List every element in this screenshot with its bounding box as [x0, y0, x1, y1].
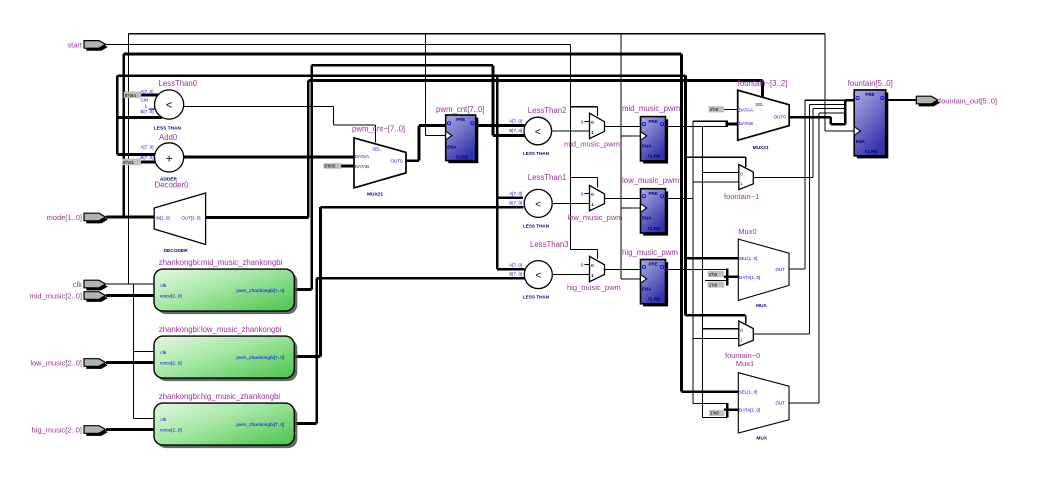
wire pwm_cnt bus left riser — [116, 76, 119, 155]
svg-text:pwm_zhankongbi[7..0]: pwm_zhankongbi[7..0] — [236, 288, 284, 294]
mux mid select — [581, 113, 605, 138]
wire start select row2 — [570, 176, 597, 178]
svg-text:clk: clk — [73, 280, 82, 289]
wire pwm_cnt to LessThan1 A — [497, 196, 523, 199]
svg-text:pwm_cnt~[7..0]: pwm_cnt~[7..0] — [352, 125, 405, 134]
svg-text:B[7..0]: B[7..0] — [509, 272, 522, 277]
register low_music_pwm — [622, 176, 679, 236]
comparator LessThan2 — [509, 106, 566, 156]
wire CIN stub — [149, 108, 157, 110]
wire Mux1 sel input — [682, 390, 739, 393]
svg-text:0: 0 — [581, 192, 584, 198]
svg-text:OUT0: OUT0 — [774, 114, 786, 119]
svg-text:SEL: SEL — [372, 147, 381, 152]
svg-text:8'h64: 8'h64 — [125, 93, 137, 98]
svg-text:1'h0: 1'h0 — [709, 272, 718, 277]
wire clk drop to fountain register clock — [824, 34, 826, 131]
svg-text:LESS THAN: LESS THAN — [523, 295, 550, 300]
svg-text:<: < — [535, 127, 541, 138]
wire hig mux out to D — [605, 268, 641, 270]
module zhankongbi:mid_music_zhankongbi — [154, 258, 297, 314]
svg-text:DATAA: DATAA — [739, 108, 753, 113]
svg-text:PRE: PRE — [865, 92, 874, 97]
svg-text:1: 1 — [591, 273, 594, 279]
svg-text:B[7..0]: B[7..0] — [509, 201, 522, 206]
svg-text:hig_music_pwm: hig_music_pwm — [622, 248, 678, 257]
wire hig_music pin bus — [106, 428, 154, 431]
svg-text:A[7..0]: A[7..0] — [141, 89, 154, 94]
svg-text:low_music_pwm: low_music_pwm — [568, 213, 623, 222]
svg-text:LessThan3: LessThan3 — [530, 240, 569, 249]
wire low mux out to D — [605, 197, 641, 199]
svg-text:LESS THAN: LESS THAN — [523, 151, 550, 156]
svg-text:ENA: ENA — [447, 144, 457, 149]
svg-text:ENA: ENA — [642, 286, 652, 291]
svg-text:DATAA: DATAA — [355, 154, 369, 159]
wire pwm_cnt to LessThan3 A — [497, 268, 524, 271]
svg-text:CLRN: CLRN — [456, 154, 468, 159]
wire fountain D joiner — [844, 100, 847, 124]
svg-text:0: 0 — [581, 263, 584, 269]
svg-text:1: 1 — [591, 202, 594, 208]
svg-text:DATAB: DATAB — [355, 164, 369, 169]
svg-text:zhankongbi:mid_music_zhankongb: zhankongbi:mid_music_zhankongbi — [159, 258, 283, 267]
module zhankongbi:low_music_zhankongbi — [154, 325, 297, 381]
wire const 8h01 to Add0 B — [141, 161, 157, 164]
wire MUX21 out to pwm_cnt D — [406, 159, 419, 162]
wire LessThan2 out — [552, 130, 590, 132]
decoder Decoder0 — [154, 180, 205, 254]
svg-text:start: start — [67, 40, 83, 49]
constant 1h0 mux0 b — [708, 282, 725, 288]
adder Add0 — [141, 133, 184, 183]
svg-text:MUX21: MUX21 — [367, 191, 383, 197]
wire start net — [106, 43, 570, 45]
svg-text:zhankongbi:hig_music_zhankongb: zhankongbi:hig_music_zhankongbi — [159, 392, 281, 401]
svg-text:OUT0: OUT0 — [390, 158, 402, 163]
svg-text:SEL[1..0]: SEL[1..0] — [739, 256, 758, 261]
mux pwm_cnt~[7..0] MUX21 — [352, 125, 406, 198]
svg-text:voice[2..0]: voice[2..0] — [160, 294, 182, 300]
svg-text:mid_music[2..0]: mid_music[2..0] — [29, 292, 82, 301]
mux fountain~1 — [724, 165, 759, 202]
wire drop to fountain mux21 DATAB — [684, 76, 687, 316]
wire fountain~1 out — [753, 177, 813, 179]
svg-text:1: 1 — [740, 338, 743, 343]
comparator LessThan1 — [509, 173, 566, 229]
svg-text:B[7..0]: B[7..0] — [141, 109, 154, 114]
wire fountain~0 out — [753, 333, 809, 335]
register pwm_cnt[7..0] — [436, 105, 485, 163]
svg-text:0: 0 — [591, 263, 594, 269]
constant 8h00 — [323, 163, 341, 169]
svg-text:MUX: MUX — [756, 303, 767, 309]
wire pwm_cnt bus right vertical — [496, 76, 499, 270]
wire joiner steps — [805, 99, 846, 101]
constant 2h0 — [709, 106, 725, 112]
svg-text:0: 0 — [581, 119, 584, 125]
input pin mid_music[2..0] — [29, 292, 107, 302]
svg-text:clk: clk — [160, 283, 166, 289]
svg-text:fountain_out[5..0]: fountain_out[5..0] — [939, 97, 997, 106]
svg-text:low_music_pwm: low_music_pwm — [622, 176, 679, 185]
wire low_music_pwm Q — [666, 197, 694, 199]
wire clk from pin to zhankongbi mid clk — [106, 283, 154, 285]
svg-text:<: < — [535, 199, 541, 210]
svg-text:<: < — [166, 100, 172, 112]
constant 1h0 mux0 a — [708, 271, 725, 277]
wire const 8h64 to LessThan0 A — [141, 94, 159, 97]
svg-text:0: 0 — [740, 328, 743, 333]
wire mode bus drop right — [680, 54, 683, 392]
svg-text:1: 1 — [740, 181, 743, 186]
svg-text:0: 0 — [740, 171, 743, 176]
wire const0 stubs — [585, 120, 590, 122]
svg-text:clk: clk — [160, 350, 166, 356]
svg-text:1'h0: 1'h0 — [709, 282, 718, 287]
wire mode bus to decoder — [106, 216, 154, 219]
wire Mux0 sel input — [686, 257, 739, 260]
comparator LessThan3 — [509, 240, 568, 300]
svg-text:DATA[1..0]: DATA[1..0] — [739, 275, 760, 280]
svg-text:pwm_zhankongbi[7..0]: pwm_zhankongbi[7..0] — [236, 422, 284, 428]
svg-text:IN[1..0]: IN[1..0] — [156, 216, 170, 221]
svg-text:A[7..0]: A[7..0] — [509, 262, 522, 267]
svg-text:zhankongbi:low_music_zhankongb: zhankongbi:low_music_zhankongbi — [159, 325, 282, 334]
svg-text:PRE: PRE — [648, 119, 657, 124]
mux fountain~0 — [725, 321, 760, 360]
wire mid_music_pwm Q — [666, 125, 727, 127]
svg-text:fountain~1: fountain~1 — [724, 192, 759, 201]
wire low_music pin bus — [106, 361, 154, 364]
wire Mux1 out — [789, 402, 819, 404]
svg-text:OUT: OUT — [776, 400, 786, 405]
wire clk top distribution — [128, 33, 825, 35]
svg-text:MUX21: MUX21 — [753, 145, 769, 151]
svg-text:CLRN: CLRN — [648, 154, 660, 159]
wire Mux1 data joiner — [726, 403, 729, 418]
svg-text:B[7..0]: B[7..0] — [141, 155, 154, 160]
svg-text:ENA: ENA — [642, 216, 652, 221]
input pin clk — [73, 280, 108, 290]
svg-text:LESS THAN: LESS THAN — [523, 224, 550, 229]
wire Mux0 out — [789, 268, 805, 270]
svg-text:pwm_zhankongbi[7..0]: pwm_zhankongbi[7..0] — [236, 355, 284, 361]
mux hig select — [581, 256, 605, 281]
svg-text:mid_music_pwm: mid_music_pwm — [622, 104, 680, 113]
wire clk drop to pwm_cnt clock — [425, 34, 427, 136]
svg-text:A[7..0]: A[7..0] — [141, 144, 154, 149]
svg-text:PRE: PRE — [648, 262, 657, 267]
module zhankongbi:hig_music_zhankongbi — [154, 392, 297, 448]
wire pwm_cnt to Add0 A — [117, 153, 157, 156]
constant 8h64 — [124, 92, 141, 99]
svg-text:MUX: MUX — [756, 436, 767, 442]
wire const 2h0 to DATAA — [724, 109, 738, 111]
register fountain[5..0] — [848, 79, 893, 159]
svg-text:8'h01: 8'h01 — [123, 160, 135, 165]
wire hig zhankongbi bus — [294, 422, 316, 425]
register mid_music_pwm — [622, 104, 680, 164]
svg-text:SEL: SEL — [755, 102, 764, 107]
wire fountain mux21 out — [789, 116, 831, 119]
svg-text:LessThan2: LessThan2 — [528, 106, 567, 115]
wire mid_music pin bus — [106, 294, 154, 297]
svg-text:hig_music[2..0]: hig_music[2..0] — [32, 426, 82, 435]
wire Decoder0 out bus — [206, 216, 309, 219]
svg-text:pwm_cnt[7..0]: pwm_cnt[7..0] — [436, 105, 485, 114]
wire start select row1 — [570, 106, 597, 108]
svg-text:fountain[5..0]: fountain[5..0] — [848, 79, 893, 88]
svg-text:ENA: ENA — [642, 143, 652, 148]
svg-text:Add0: Add0 — [159, 133, 178, 142]
wire mode bus top — [124, 53, 682, 56]
svg-text:voice[2..0]: voice[2..0] — [160, 428, 182, 434]
constant 8h01 — [122, 159, 141, 166]
svg-text:ENA: ENA — [856, 139, 866, 144]
constant 1h0 mux1 — [709, 410, 724, 416]
wire mode bus riser — [122, 54, 125, 217]
wire mid mux out to D — [605, 125, 641, 127]
svg-text:1: 1 — [591, 130, 594, 136]
svg-text:fountain~[3..2]: fountain~[3..2] — [738, 79, 788, 88]
svg-text:CIN: CIN — [141, 98, 149, 103]
svg-text:Mux0: Mux0 — [738, 227, 756, 236]
input pin hig_music[2..0] — [32, 426, 108, 436]
mux Mux0 — [738, 227, 789, 309]
input pin mode[1..0] — [47, 213, 108, 223]
wire Add0 out to MUX21 DATAA — [184, 156, 354, 159]
wire pwm_cnt to LessThan0 B — [117, 116, 162, 119]
svg-text:CLRN: CLRN — [648, 226, 660, 231]
svg-text:<: < — [535, 271, 541, 282]
wire low zhankongbi bus — [294, 355, 320, 358]
svg-text:8'h00: 8'h00 — [324, 164, 336, 169]
svg-text:LessThan1: LessThan1 — [528, 173, 567, 182]
svg-text:B[7..0]: B[7..0] — [509, 128, 522, 133]
wire hig_music_pwm Q — [666, 268, 728, 270]
wire LessThan1 out — [552, 203, 589, 205]
svg-text:CLRN: CLRN — [865, 149, 877, 154]
svg-text:2'h0: 2'h0 — [710, 107, 719, 112]
svg-text:A[7..0]: A[7..0] — [509, 119, 522, 124]
svg-text:low_music[2..0]: low_music[2..0] — [30, 359, 82, 368]
wire clk to zhankongbi low and hig clk — [133, 284, 135, 419]
svg-text:1'h0: 1'h0 — [710, 411, 719, 416]
wire pwm_cnt Q to LessThan2 A — [476, 124, 525, 127]
svg-text:PRE: PRE — [648, 191, 657, 196]
svg-text:DATA[1..0]: DATA[1..0] — [739, 408, 760, 413]
svg-text:0: 0 — [591, 120, 594, 126]
wire start select row3 — [570, 248, 597, 250]
svg-text:mid_music_pwm: mid_music_pwm — [564, 140, 620, 149]
svg-text:CLRN: CLRN — [648, 297, 660, 302]
input pin start — [67, 40, 107, 50]
svg-text:clk: clk — [160, 417, 166, 423]
wire clk drop to music pwm register clocks — [620, 34, 622, 279]
svg-text:DECODER: DECODER — [164, 248, 189, 254]
output pin fountain_out[5..0] — [916, 96, 997, 106]
wire const 8h00 to MUX21 DATAB — [341, 165, 354, 168]
svg-text:LESS THAN: LESS THAN — [154, 125, 182, 131]
svg-text:LessThan0: LessThan0 — [159, 79, 198, 88]
svg-text:OUT: OUT — [776, 267, 786, 272]
input pin low_music[2..0] — [30, 359, 107, 369]
svg-text:hig_music_pwm: hig_music_pwm — [567, 283, 621, 292]
wire fountain Q to output pin — [886, 99, 917, 101]
svg-text:DATAB: DATAB — [739, 121, 753, 126]
svg-text:Mux1: Mux1 — [736, 359, 754, 368]
svg-text:0: 0 — [591, 192, 594, 198]
mux low select — [581, 185, 605, 210]
wire LessThan3 out — [552, 274, 589, 276]
svg-text:voice[2..0]: voice[2..0] — [160, 361, 182, 367]
mux Mux1 — [736, 359, 789, 441]
svg-text:mode[1..0]: mode[1..0] — [47, 213, 82, 222]
mux fountain~[3..2] MUX21 — [738, 79, 790, 151]
svg-text:+: + — [166, 151, 173, 165]
wire pwm_cnt bus top — [117, 74, 685, 77]
svg-text:SEL[1..0]: SEL[1..0] — [739, 390, 758, 395]
svg-text:OUT[3..0]: OUT[3..0] — [182, 216, 201, 221]
comparator LessThan0 — [141, 79, 198, 131]
svg-text:PRE: PRE — [456, 117, 465, 122]
svg-text:A[7..0]: A[7..0] — [509, 191, 522, 196]
wire LessThan0 out to MUX21 SEL — [184, 105, 334, 107]
svg-text:Decoder0: Decoder0 — [155, 180, 189, 189]
wire clk riser — [127, 34, 129, 284]
register hig_music_pwm — [622, 248, 678, 306]
wire Mux0 data joiner — [726, 268, 729, 285]
wire mid zhankongbi bus — [294, 288, 311, 291]
